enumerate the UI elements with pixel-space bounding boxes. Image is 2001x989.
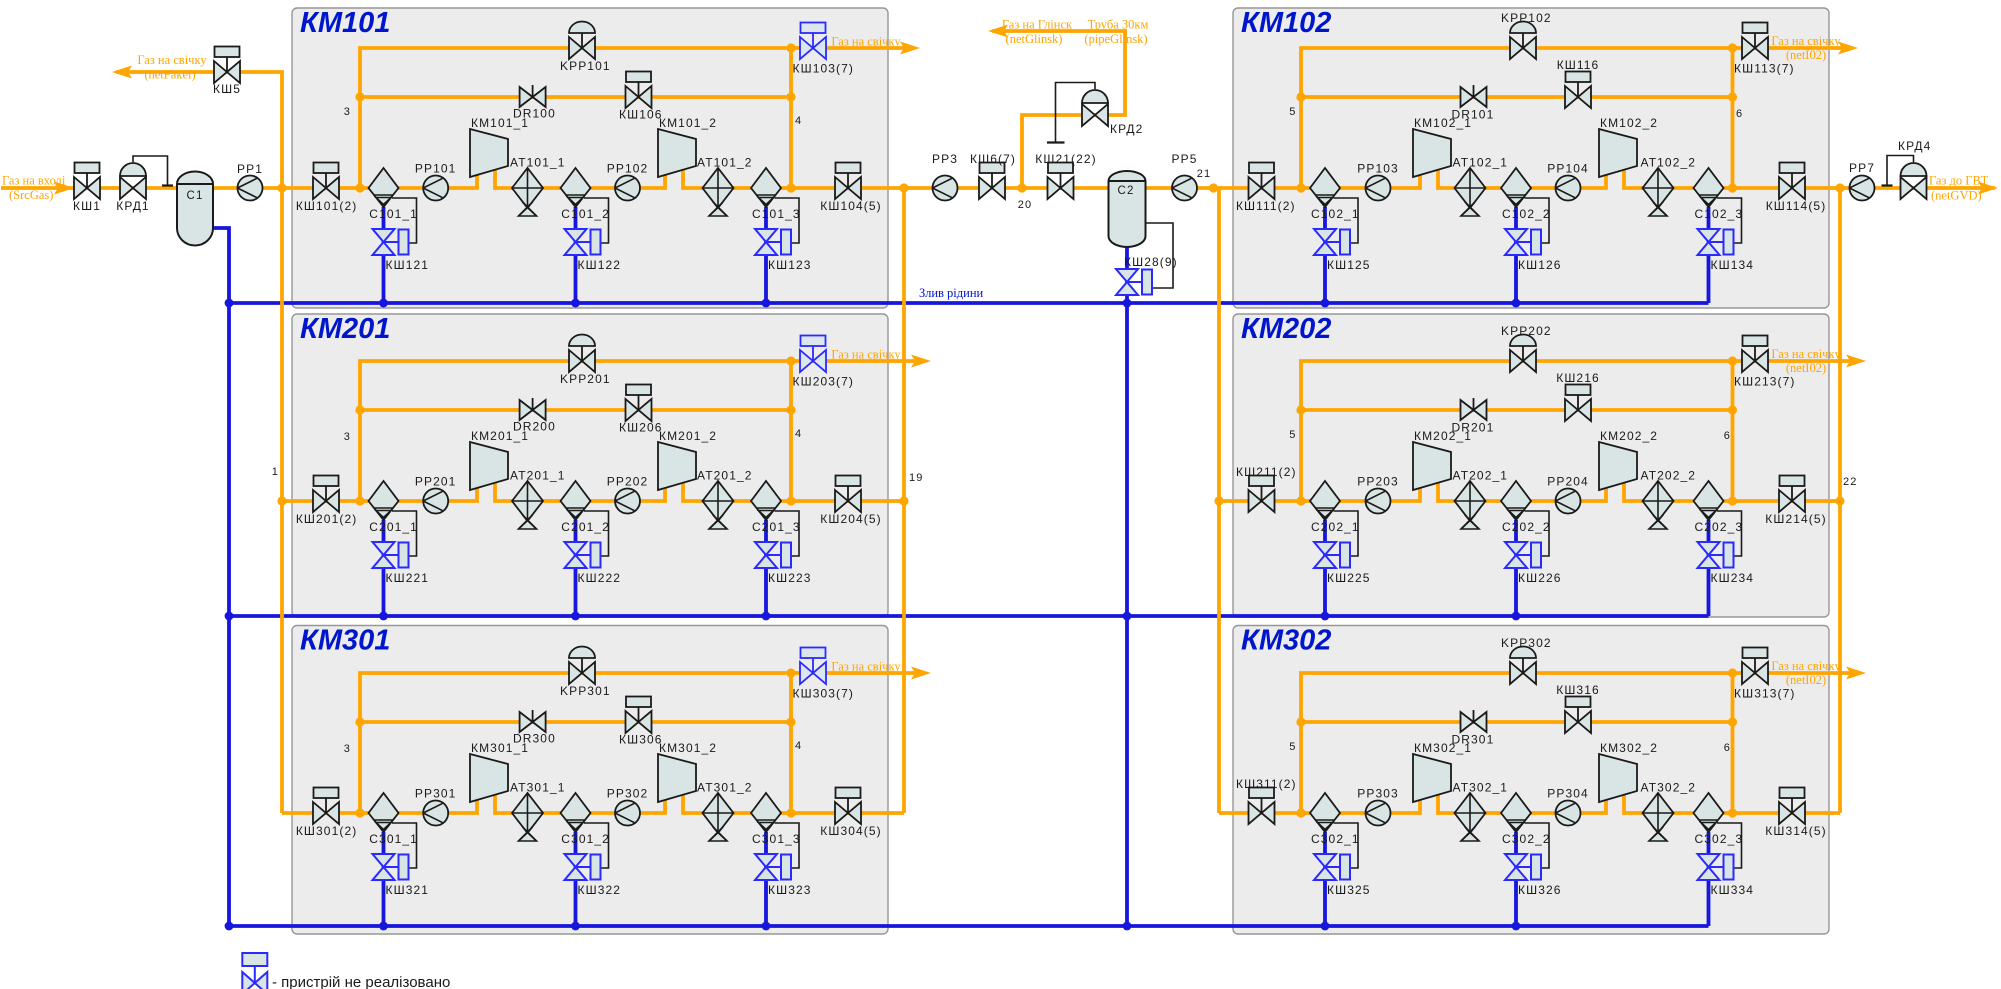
svg-text:C102_3: C102_3 <box>1695 207 1744 221</box>
aftercooler AT301_1 <box>510 781 566 842</box>
wire bypass riser 4 <box>789 361 793 501</box>
wire output riser node 19 <box>902 188 906 813</box>
compressor КМ201_1 <box>470 429 529 490</box>
svg-text:КШ126: КШ126 <box>1518 258 1562 272</box>
svg-text:КШ114(5): КШ114(5) <box>1766 199 1827 213</box>
svg-text:PP303: PP303 <box>1357 787 1399 801</box>
flow element PP101 <box>415 162 457 201</box>
svg-text:(netFakel): (netFakel) <box>144 68 195 82</box>
flare valve КШ113(7) <box>1734 23 1795 76</box>
svg-text:C202_1: C202_1 <box>1311 520 1360 534</box>
label pipeGlinsk <box>1084 18 1148 47</box>
cooler C301_2 <box>561 793 610 846</box>
wire drain drop <box>764 207 768 303</box>
drain valve КШ323 <box>755 854 812 897</box>
wire drain from separator C1 <box>212 228 229 926</box>
svg-text:КШ123: КШ123 <box>768 258 812 272</box>
cooler C201_1 <box>369 481 418 534</box>
svg-text:6: 6 <box>1724 430 1731 442</box>
svg-text:КШ116: КШ116 <box>1557 58 1600 72</box>
svg-text:(netGVD): (netGVD) <box>1931 189 1982 203</box>
drain valve КШ221 <box>373 542 430 585</box>
arrow flare КМ301 <box>831 660 931 680</box>
valve КШ306 <box>619 697 663 747</box>
flare valve КШ303(7) <box>793 648 854 701</box>
aftercooler AT302_1 <box>1453 781 1509 842</box>
svg-text:PP1: PP1 <box>237 162 263 176</box>
svg-text:(netI02): (netI02) <box>1786 361 1826 375</box>
svg-text:PP104: PP104 <box>1547 162 1589 176</box>
compressor КМ102_1 <box>1413 116 1472 177</box>
svg-text:КШ234: КШ234 <box>1711 571 1755 585</box>
valve КШ101(2) <box>296 163 357 214</box>
wire feed riser right modules node 21 <box>1217 188 1221 813</box>
aftercooler AT201_1 <box>510 469 566 530</box>
compressor КМ302_1 <box>1413 741 1472 802</box>
drain valve КШ121 <box>373 229 430 272</box>
throttle DR200 <box>513 398 556 434</box>
svg-text:DR301: DR301 <box>1452 733 1495 747</box>
wire bypass riser 6 <box>1731 48 1735 188</box>
svg-text:КРД1: КРД1 <box>116 199 149 213</box>
legend symbol (not implemented valve) <box>242 953 267 989</box>
svg-text:КМ101_2: КМ101_2 <box>659 116 717 130</box>
wire drain drop <box>574 207 578 303</box>
svg-text:КШ203(7): КШ203(7) <box>793 375 854 389</box>
svg-text:КШ321: КШ321 <box>386 883 430 897</box>
svg-text:КШ334: КШ334 <box>1711 883 1755 897</box>
svg-text:20: 20 <box>1018 199 1032 211</box>
svg-text:C102_2: C102_2 <box>1502 207 1551 221</box>
wire throttle line 3-4 <box>360 720 791 724</box>
wire bypass riser 5 <box>1301 673 1859 813</box>
svg-text:AT102_2: AT102_2 <box>1641 156 1697 170</box>
control valve KPP301 <box>560 647 611 699</box>
svg-text:КШ122: КШ122 <box>578 258 622 272</box>
svg-text:PP103: PP103 <box>1357 162 1399 176</box>
arrow flare КМ201 <box>831 348 931 368</box>
throttle DR201 <box>1452 398 1495 435</box>
orange pipe junction nodes <box>277 43 1844 817</box>
linkage C201_1 to КШ221 <box>392 511 417 556</box>
svg-text:C302_3: C302_3 <box>1695 832 1744 846</box>
linkage C101_2 to КШ122 <box>584 198 609 243</box>
control valve КРД1 <box>116 156 173 213</box>
wire bypass riser 4 <box>789 48 793 188</box>
svg-text:Газ на свічку: Газ на свічку <box>1771 34 1841 48</box>
svg-text:C302_1: C302_1 <box>1311 832 1360 846</box>
compressor КМ202_2 <box>1599 429 1658 490</box>
drain valve КШ321 <box>373 854 430 897</box>
svg-text:КШ216: КШ216 <box>1556 371 1600 385</box>
flow element PP102 <box>607 162 649 201</box>
control valve KPP201 <box>560 335 611 386</box>
svg-text:КШ225: КШ225 <box>1327 571 1371 585</box>
cooler C101_3 <box>751 168 801 221</box>
control valve KPP101 <box>560 22 611 74</box>
svg-text:КШ211(2): КШ211(2) <box>1236 465 1297 479</box>
valve КШ211(2) <box>1236 465 1297 512</box>
wire drain drop <box>1323 832 1327 926</box>
aftercooler AT202_1 <box>1453 469 1509 530</box>
exit valve КШ304(5) <box>820 788 881 839</box>
svg-text:КШ206: КШ206 <box>619 421 663 435</box>
wire drain drop <box>1323 207 1327 303</box>
svg-text:КШ301(2): КШ301(2) <box>296 824 357 838</box>
cooler C101_1 <box>369 168 418 221</box>
drain valve КШ122 <box>565 229 622 272</box>
svg-text:6: 6 <box>1736 108 1743 120</box>
valve КШ311(2) <box>1236 777 1297 824</box>
svg-text:DR201: DR201 <box>1452 421 1495 435</box>
compressor КМ101_1 <box>470 116 529 177</box>
arrow flare КМ202 <box>1771 347 1866 375</box>
flare valve КШ213(7) <box>1734 336 1795 389</box>
svg-text:КШ303(7): КШ303(7) <box>793 687 854 701</box>
svg-text:C302_2: C302_2 <box>1502 832 1551 846</box>
svg-text:КШ314(5): КШ314(5) <box>1765 824 1826 838</box>
valve КШ201(2) <box>296 476 357 527</box>
drain valve КШ322 <box>565 854 622 897</box>
svg-text:КРД2: КРД2 <box>1110 122 1143 136</box>
svg-text:DR101: DR101 <box>1452 108 1495 122</box>
svg-text:4: 4 <box>795 428 802 440</box>
module КМ201 enclosure <box>292 313 888 617</box>
svg-text:PP102: PP102 <box>607 162 649 176</box>
wire flare branch netFakel <box>116 72 282 188</box>
linkage C102_2 to КШ126 <box>1525 198 1550 243</box>
svg-text:C101_2: C101_2 <box>561 207 610 221</box>
arrow flare КМ102 <box>1771 34 1858 62</box>
exit valve КШ104(5) <box>820 163 881 214</box>
drain valve КШ325 <box>1314 854 1371 897</box>
cooler C202_2 <box>1501 481 1551 534</box>
svg-text:КШ125: КШ125 <box>1327 258 1371 272</box>
svg-text:C102_1: C102_1 <box>1311 207 1360 221</box>
wire drain drop <box>1707 207 1711 303</box>
svg-text:AT202_1: AT202_1 <box>1453 469 1509 483</box>
arrow netGlinsk <box>988 18 1073 47</box>
wire throttle line 3-4 <box>360 408 791 412</box>
svg-text:3: 3 <box>344 106 351 118</box>
svg-text:КМ102_2: КМ102_2 <box>1600 116 1658 130</box>
svg-text:КШ103(7): КШ103(7) <box>793 62 854 76</box>
svg-text:КМ301: КМ301 <box>300 625 390 657</box>
drain valve КШ125 <box>1314 229 1371 272</box>
wire KM201 main line <box>282 483 904 501</box>
drain valve КШ123 <box>755 229 812 272</box>
linkage C301_3 to КШ323 <box>775 823 800 868</box>
svg-text:КМ302_2: КМ302_2 <box>1600 741 1658 755</box>
arrow flare КМ302 <box>1771 659 1866 687</box>
svg-text:КШ223: КШ223 <box>768 571 812 585</box>
linkage C101_3 to КШ123 <box>775 198 800 243</box>
wire drain drop <box>1707 520 1711 616</box>
linkage C202_1 to КШ225 <box>1334 511 1359 556</box>
cooler C102_2 <box>1501 168 1551 221</box>
aftercooler AT302_2 <box>1641 781 1697 842</box>
svg-text:КШ213(7): КШ213(7) <box>1734 375 1795 389</box>
svg-text:КМ201: КМ201 <box>300 313 390 345</box>
compressor КМ301_1 <box>470 741 529 802</box>
svg-text:C202_2: C202_2 <box>1502 520 1551 534</box>
linkage C302_2 to КШ326 <box>1525 823 1550 868</box>
svg-text:КШ1: КШ1 <box>73 199 101 213</box>
cooler C302_2 <box>1501 793 1551 846</box>
linkage C301_1 to КШ321 <box>392 823 417 868</box>
svg-text:КШ326: КШ326 <box>1518 883 1562 897</box>
compressor КМ301_2 <box>658 741 717 802</box>
wire throttle line 3-4 <box>360 95 791 99</box>
cooler C302_3 <box>1694 793 1744 846</box>
svg-text:КШ104(5): КШ104(5) <box>820 199 881 213</box>
separator C1 <box>177 171 213 245</box>
svg-text:КРД4: КРД4 <box>1898 139 1931 153</box>
svg-text:(SrcGas): (SrcGas) <box>9 188 53 202</box>
linkage C201_2 to КШ222 <box>584 511 609 556</box>
valve КШ316 <box>1556 683 1600 733</box>
svg-text:C101_3: C101_3 <box>752 207 801 221</box>
svg-text:- пристрій не реалізовано: - пристрій не реалізовано <box>272 974 450 989</box>
svg-text:КМ101: КМ101 <box>300 7 390 39</box>
svg-text:C301_3: C301_3 <box>752 832 801 846</box>
svg-text:AT302_1: AT302_1 <box>1453 781 1509 795</box>
svg-text:5: 5 <box>1289 741 1296 753</box>
svg-text:КШ323: КШ323 <box>768 883 812 897</box>
svg-text:КШ201(2): КШ201(2) <box>296 512 357 526</box>
throttle DR300 <box>513 710 556 746</box>
svg-text:КШ121: КШ121 <box>386 258 430 272</box>
arrow flare netFakel <box>112 53 207 82</box>
svg-text:C1: C1 <box>187 190 204 202</box>
wire bypass riser 3 <box>360 361 924 501</box>
wire drain drop <box>764 832 768 926</box>
wire output riser node 22 <box>1838 188 1842 813</box>
svg-text:КШ226: КШ226 <box>1518 571 1562 585</box>
svg-text:КШ322: КШ322 <box>578 883 622 897</box>
flow element PP3 <box>932 152 958 201</box>
compressor КМ201_2 <box>658 429 717 490</box>
flare valve КШ313(7) <box>1734 648 1795 701</box>
cooler C201_3 <box>751 481 801 534</box>
wire bypass riser 6 <box>1731 361 1735 501</box>
svg-text:PP301: PP301 <box>415 787 457 801</box>
exit valve КШ314(5) <box>1765 788 1826 839</box>
svg-text:Газ на свічку: Газ на свічку <box>1771 347 1841 361</box>
wire drain drop <box>1514 832 1518 926</box>
svg-text:КШ304(5): КШ304(5) <box>820 824 881 838</box>
flow element PP303 <box>1357 787 1399 826</box>
svg-text:КШ101(2): КШ101(2) <box>296 199 357 213</box>
drain valve КШ126 <box>1505 229 1562 272</box>
drain valve КШ134 <box>1698 229 1755 272</box>
module КМ301 enclosure <box>292 625 888 935</box>
valve КШ301(2) <box>296 788 357 839</box>
flow element PP104 <box>1547 162 1589 201</box>
linkage C2 to КШ28 <box>1146 223 1174 288</box>
svg-text:AT301_1: AT301_1 <box>510 781 566 795</box>
valve КШ116 <box>1557 58 1600 108</box>
svg-text:КМ102: КМ102 <box>1241 7 1331 39</box>
svg-text:КМ202: КМ202 <box>1241 313 1331 345</box>
svg-text:КШ111(2): КШ111(2) <box>1236 199 1296 213</box>
svg-text:КШ222: КШ222 <box>578 571 622 585</box>
wire drain collector KM201/KM202 <box>229 614 1709 618</box>
cooler C202_3 <box>1694 481 1744 534</box>
drain valve КШ225 <box>1314 542 1371 585</box>
wire KM302 main line <box>1219 795 1840 813</box>
wire drain drop <box>382 832 386 926</box>
svg-text:КШ214(5): КШ214(5) <box>1765 512 1826 526</box>
valve КШ206 <box>619 385 663 435</box>
svg-text:KPP301: KPP301 <box>560 684 611 698</box>
svg-text:Газ на свічку: Газ на свічку <box>137 53 207 67</box>
svg-text:PP204: PP204 <box>1547 475 1589 489</box>
svg-text:AT101_2: AT101_2 <box>697 156 753 170</box>
exit valve КШ114(5) <box>1766 163 1827 214</box>
svg-text:PP7: PP7 <box>1849 161 1875 175</box>
exit valve КШ214(5) <box>1765 476 1826 527</box>
arrow gas inlet SrcGas <box>2 174 74 203</box>
control valve KPP102 <box>1501 11 1552 59</box>
linkage C101_1 to КШ121 <box>392 198 417 243</box>
svg-text:19: 19 <box>909 472 923 484</box>
throttle DR301 <box>1452 710 1495 747</box>
flare valve КШ203(7) <box>793 336 854 389</box>
svg-text:21: 21 <box>1197 168 1211 180</box>
linkage C202_2 to КШ226 <box>1525 511 1550 556</box>
svg-text:КШ28(9): КШ28(9) <box>1124 255 1178 269</box>
cooler C301_3 <box>751 793 801 846</box>
svg-text:КМ202_2: КМ202_2 <box>1600 429 1658 443</box>
aftercooler AT102_2 <box>1641 156 1697 217</box>
cooler C302_1 <box>1310 793 1360 846</box>
drain valve КШ223 <box>755 542 812 585</box>
drain valve КШ28(9) <box>1116 255 1178 295</box>
valve КШ1 <box>73 163 101 214</box>
svg-text:(netI02): (netI02) <box>1786 48 1826 62</box>
svg-text:КМ201_2: КМ201_2 <box>659 429 717 443</box>
svg-text:KPP202: KPP202 <box>1501 324 1552 338</box>
svg-text:KPP302: KPP302 <box>1501 636 1552 650</box>
cooler C201_2 <box>561 481 610 534</box>
wire throttle line 5-6 <box>1301 408 1733 412</box>
aftercooler AT102_1 <box>1453 156 1509 217</box>
valve КШ6(7) <box>970 152 1016 199</box>
svg-text:3: 3 <box>344 431 351 443</box>
flow element PP7 <box>1849 161 1875 201</box>
linkage C202_3 to КШ234 <box>1717 511 1742 556</box>
svg-text:PP3: PP3 <box>932 152 958 166</box>
svg-text:AT201_1: AT201_1 <box>510 469 566 483</box>
svg-text:(netI02): (netI02) <box>1786 673 1826 687</box>
svg-text:3: 3 <box>344 743 351 755</box>
module КМ102 enclosure <box>1233 7 1829 308</box>
svg-text:КШ204(5): КШ204(5) <box>820 512 881 526</box>
module КМ101 enclosure <box>292 7 888 308</box>
svg-text:PP202: PP202 <box>607 475 649 489</box>
compressor КМ101_2 <box>658 116 717 177</box>
linkage C301_2 to КШ322 <box>584 823 609 868</box>
cooler C102_3 <box>1694 168 1744 221</box>
wire drain drop <box>382 207 386 303</box>
svg-text:(pipeGlinsk): (pipeGlinsk) <box>1084 32 1147 46</box>
blue drain junction nodes <box>225 299 1521 931</box>
svg-text:КШ134: КШ134 <box>1711 258 1755 272</box>
throttle DR101 <box>1452 85 1495 122</box>
svg-text:DR300: DR300 <box>513 732 556 746</box>
svg-text:5: 5 <box>1289 106 1296 118</box>
svg-text:Газ на Глінск: Газ на Глінск <box>1002 18 1073 32</box>
flow element PP203 <box>1357 475 1399 514</box>
svg-text:6: 6 <box>1724 742 1731 754</box>
svg-text:Газ на свічку: Газ на свічку <box>1771 659 1841 673</box>
linkage C102_3 to КШ134 <box>1717 198 1742 243</box>
wire bypass riser 3 <box>360 673 924 813</box>
compressor КМ102_2 <box>1599 116 1658 177</box>
wire bypass riser 5 <box>1301 361 1859 501</box>
node 21 <box>1197 168 1218 193</box>
flow element PP302 <box>607 787 649 826</box>
flow element PP103 <box>1357 162 1399 201</box>
svg-text:Газ до ГВТ: Газ до ГВТ <box>1929 174 1989 188</box>
wire bypass riser 4 <box>789 673 793 813</box>
linkage C302_1 to КШ325 <box>1334 823 1359 868</box>
svg-text:КШ325: КШ325 <box>1327 883 1371 897</box>
svg-text:C201_3: C201_3 <box>752 520 801 534</box>
svg-text:Газ на свічку: Газ на свічку <box>831 660 901 674</box>
svg-text:C201_2: C201_2 <box>561 520 610 534</box>
flare valve КШ103(7) <box>793 23 854 76</box>
wire bypass riser 5 <box>1301 48 1851 188</box>
svg-text:PP101: PP101 <box>415 162 457 176</box>
wire KM202 main line <box>1219 483 1840 501</box>
flow element PP304 <box>1547 787 1589 826</box>
control valve КРД2 <box>1047 83 1143 143</box>
svg-text:КШ5: КШ5 <box>213 82 241 96</box>
drain valve КШ222 <box>565 542 622 585</box>
svg-text:КШ316: КШ316 <box>1556 683 1600 697</box>
flow element PP5 <box>1172 152 1198 201</box>
svg-text:KPP101: KPP101 <box>560 59 611 73</box>
flow element PP1 <box>237 162 263 201</box>
compressor КМ202_1 <box>1413 429 1472 490</box>
flow element PP301 <box>415 787 457 826</box>
svg-text:PP201: PP201 <box>415 475 457 489</box>
svg-text:КШ306: КШ306 <box>619 733 663 747</box>
svg-text:КШ221: КШ221 <box>386 571 430 585</box>
control valve KPP302 <box>1501 636 1552 684</box>
svg-text:PP5: PP5 <box>1172 152 1198 166</box>
wire bypass riser 6 <box>1731 673 1735 813</box>
svg-text:(netGlinsk): (netGlinsk) <box>1006 32 1063 46</box>
svg-text:C101_1: C101_1 <box>369 207 418 221</box>
svg-text:C201_1: C201_1 <box>369 520 418 534</box>
svg-text:Газ на вході: Газ на вході <box>2 174 66 188</box>
svg-text:КШ311(2): КШ311(2) <box>1236 777 1297 791</box>
wire drain drop <box>382 520 386 616</box>
control valve KPP202 <box>1501 324 1552 372</box>
aftercooler AT101_1 <box>510 156 566 217</box>
svg-text:Газ на свічку: Газ на свічку <box>831 348 901 362</box>
svg-text:AT302_2: AT302_2 <box>1641 781 1697 795</box>
svg-text:КШ106: КШ106 <box>619 108 663 122</box>
svg-text:C301_2: C301_2 <box>561 832 610 846</box>
svg-text:КШ21(22): КШ21(22) <box>1035 152 1096 166</box>
cooler C102_1 <box>1310 168 1360 221</box>
flow element PP202 <box>607 475 649 514</box>
svg-text:КШ6(7): КШ6(7) <box>970 152 1016 166</box>
